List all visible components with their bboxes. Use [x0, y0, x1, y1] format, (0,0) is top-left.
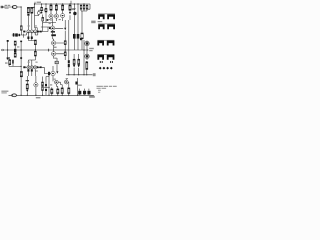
- transistor arrows dp1: [28, 32, 29, 33]
- wire output column: [84, 40, 87, 75]
- capacitor C7 rail block 2: [83, 91, 86, 95]
- wire mid-left stack: [14, 45, 16, 53]
- capacitor C8 rail block 3: [87, 91, 90, 95]
- diode D3 top right arrow: [73, 8, 75, 11]
- label top row: [48, 19, 50, 20]
- node fb bottom tick: [20, 57, 22, 59]
- node dp2 left component: [23, 66, 25, 68]
- transistor Q2 dp1 mid: [30, 30, 33, 33]
- capacitor C1 input electrolytic: [12, 6, 17, 9]
- wire vas column: [35, 4, 57, 32]
- resistor R30 bottom row 4: [68, 88, 70, 94]
- transistor arrows top row: [50, 16, 52, 17]
- title block line 4: [98, 91, 100, 94]
- label right rail: [91, 21, 95, 24]
- fuse F1 marks: [100, 61, 101, 63]
- node top corner block: [47, 19, 49, 21]
- text smudges: [1, 2, 116, 99]
- transistor Q9 top row 2: [54, 14, 58, 18]
- node input terminal mid: [2, 49, 4, 51]
- node vas base blob: [49, 27, 51, 29]
- transistor Q5 vas top: [51, 26, 55, 30]
- resistor R10 vas col component: [45, 8, 47, 12]
- resistor R37 mid-left stack b: [14, 53, 16, 57]
- resistor R22 col c hollow: [81, 33, 83, 39]
- wire feedback column: [9, 41, 49, 95]
- transistor Q4b dp2 right: [34, 66, 37, 69]
- transistor arrows bottom row: [56, 82, 58, 83]
- transistor Q11 lower mid: [51, 71, 55, 75]
- resistor R12 top row 2: [55, 5, 57, 10]
- capacitor C3 lower left: [12, 60, 14, 64]
- title block line 1: [97, 86, 103, 87]
- wire mid column x68: [68, 20, 70, 75]
- wire mid lower transistor chain: [48, 58, 57, 81]
- capacitor bank row 3 left: [97, 41, 104, 46]
- capacitor bank row 4 right: [107, 55, 115, 60]
- transistor Q15 bottom left: [34, 83, 38, 87]
- capacitor bank row 1 left: [98, 14, 104, 19]
- transistor Q1 dp1 left: [27, 30, 30, 33]
- resistor R41 tail lower: [34, 51, 36, 56]
- label top right: [72, 8, 75, 10]
- label lower left: [5, 62, 8, 63]
- node corner block: [80, 38, 82, 40]
- wire dp1 top feed: [28, 4, 37, 31]
- resistor R18 col68 lower: [68, 64, 70, 67]
- label bias mid: [54, 47, 57, 48]
- label dp2: [28, 62, 30, 63]
- resistor R45 pre-vas load: [41, 7, 43, 11]
- resistor R7 dp1 base stopper: [23, 31, 25, 33]
- title block line 3: [98, 89, 101, 92]
- resistor R44 vas emitter b: [51, 34, 56, 36]
- resistor R14 top row 4: [69, 5, 71, 10]
- title block line 2: [97, 88, 101, 89]
- resistor R4 dp1 load right: [31, 7, 33, 13]
- resistor R23 lower right 1: [73, 59, 75, 64]
- resistor R19 right col small 1: [80, 5, 82, 9]
- wire rail block stems: [80, 89, 89, 96]
- node block col b: [77, 34, 80, 39]
- wire mid column x65: [64, 20, 66, 60]
- wire dp2 connections: [26, 60, 48, 76]
- diode D6 mid lower: [56, 71, 58, 73]
- resistor R24 lower right 2: [78, 59, 80, 64]
- node col7 top block: [7, 40, 9, 42]
- resistor R33 bottom mid stack bottom: [42, 87, 44, 91]
- wire dp1 collector right: [31, 13, 33, 30]
- capacitor bank row 2 right: [107, 24, 115, 29]
- resistor R6 dp1 emitter right: [31, 37, 33, 40]
- diode D4 lower right 1: [73, 65, 75, 68]
- wire bottom rail: [9, 95, 94, 97]
- label rail blocks: [78, 85, 82, 86]
- resistor R3 dp1 load left: [27, 7, 29, 13]
- wire dp1 output to VAS: [35, 21, 48, 32]
- resistor R17 col68 upper: [68, 60, 70, 63]
- resistor R13 top row 3: [62, 5, 64, 10]
- wire right lower resistor col: [74, 54, 87, 75]
- resistor R1 bias upper: [20, 25, 22, 26]
- wire bottom transistor connections: [52, 79, 69, 89]
- resistor R40 tail upper: [34, 40, 36, 45]
- node pre-vas blob: [41, 12, 43, 14]
- diode D2 vas diode: [64, 28, 66, 31]
- node blocks col46: [45, 84, 47, 86]
- label vas: [49, 23, 51, 24]
- diode bridge D11: [106, 67, 109, 70]
- resistor R31 bottom left: [26, 84, 28, 89]
- capacitor C2 base network: [13, 33, 15, 36]
- resistor R38 dp2 emitter left: [27, 69, 29, 71]
- transistor Q10 top row 3: [61, 14, 65, 18]
- wire top rail: [34, 1, 90, 9]
- transistor Q4 dp2 mid: [30, 66, 33, 69]
- wire bottom resistor stubs: [52, 78, 78, 95]
- capacitor bank row 2 left: [98, 24, 104, 29]
- transistor Q14 bottom row 2: [64, 80, 68, 84]
- label under rail: [36, 97, 41, 98]
- wire vas collector: [53, 18, 65, 58]
- wire dp1 emitters: [28, 33, 37, 41]
- transistor Q17 output top: [85, 41, 89, 45]
- wire input line: [1, 7, 21, 25]
- wire feedback left col: [8, 40, 10, 60]
- resistor R20 right col small 2: [83, 5, 85, 9]
- label q14 squiggle: [66, 78, 68, 79]
- capacitor bank row 4 left: [97, 55, 104, 60]
- wire right lower rail: [66, 74, 93, 76]
- diode D5 lower right 2: [78, 65, 80, 68]
- diode bridge D10: [103, 67, 106, 70]
- label vas: [44, 9, 45, 11]
- resistor R11 top row 1: [50, 5, 52, 10]
- transistor Q2b dp1 right: [34, 30, 37, 33]
- transistor Q8 top row 1: [49, 14, 53, 18]
- input connector: [1, 6, 3, 8]
- label bottom left: [1, 91, 8, 92]
- resistor R35 lower left: [9, 60, 11, 65]
- resistor R28 bottom row 2: [57, 89, 59, 94]
- resistor R15 mid col upper: [64, 41, 66, 45]
- resistor R27 bottom row 1: [51, 89, 53, 94]
- label top rail: [37, 2, 41, 3]
- resistor R26 trimmer mid: [55, 61, 58, 64]
- transistor Q13 bottom row 1: [55, 80, 59, 84]
- resistor R34 feedback: [20, 72, 22, 77]
- capacitor C6 rail block 1: [78, 91, 81, 95]
- wire mid rail: [3, 49, 88, 51]
- resistor R5 dp1 emitter left: [27, 37, 29, 40]
- capacitor C5 bottom rail electrolytic: [12, 94, 16, 97]
- right power column: [97, 14, 115, 70]
- label dp1: [28, 25, 30, 26]
- wire right col a: [73, 4, 75, 50]
- resistor R16 mid col lower: [64, 52, 66, 56]
- resistor R32 bottom mid stack top: [42, 82, 44, 86]
- resistor R21 right col small 3: [86, 5, 88, 9]
- capacitor C4 mid-left dark: [14, 49, 16, 53]
- node dp1 left collector block: [27, 14, 29, 16]
- resistor R42 dp2 output: [40, 66, 42, 68]
- wire right col b: [77, 4, 79, 50]
- transistor Q19 pre-vas: [37, 12, 40, 15]
- node dp2 right component: [37, 66, 39, 68]
- transistor arrow vas: [52, 28, 54, 29]
- diode D7 bottom right of Q14: [75, 82, 77, 85]
- resistor R25 lower right tall: [86, 62, 88, 70]
- resistor R39 dp2 emitter right: [31, 69, 33, 71]
- wire bottom-left columns: [27, 73, 49, 95]
- node junction dots: [41, 3, 42, 4]
- capacitor bank row 1 right: [107, 14, 115, 19]
- node base junction: [19, 34, 20, 36]
- transistor Q6 bias upper: [51, 41, 55, 45]
- wire bottom base line: [44, 86, 50, 88]
- diode D8 bottom left arrow: [26, 90, 28, 92]
- wire top transistor feeds: [51, 10, 70, 21]
- wire dp2 collector feeds: [28, 45, 35, 60]
- wire dp1 collector left: [27, 16, 29, 30]
- label right col f: [98, 21, 103, 22]
- transistor arrows dp2: [28, 67, 29, 68]
- node fb top tick: [20, 41, 22, 43]
- transistor Q16 top right dark: [73, 12, 76, 15]
- label output: [89, 48, 94, 49]
- label bottom rail: [89, 96, 95, 98]
- label input: [5, 5, 7, 6]
- wire input bias vertical: [21, 31, 23, 38]
- resistor R9 vas top bar: [42, 17, 44, 21]
- diode bridge D9: [99, 67, 102, 70]
- node block col a: [73, 34, 76, 39]
- transistor Q7 bias lower: [51, 52, 55, 56]
- node cluster left of Q11: [48, 72, 50, 75]
- wire base network horizontal: [12, 33, 27, 35]
- diode D1 top col: [69, 12, 71, 14]
- capacitor bank row 3 right: [107, 41, 115, 46]
- label mid stack: [17, 46, 19, 47]
- node T bottom left: [26, 80, 29, 81]
- wire right col c: [81, 9, 90, 50]
- resistor R43 vas emitter a: [51, 31, 55, 33]
- transistor arrows bias: [53, 42, 55, 43]
- resistor R36 mid-left stack a: [14, 41, 16, 45]
- resistor R2 base network: [15, 33, 18, 36]
- node col7 bottom block: [7, 57, 9, 59]
- resistor R8 dp1 output component: [40, 31, 42, 33]
- label minus rail: [93, 73, 96, 76]
- diode bridge D12: [110, 67, 113, 70]
- resistor R29 bottom row 3: [61, 88, 63, 94]
- transistor Q3 dp2 left: [27, 66, 30, 69]
- label bottom circles: [50, 84, 52, 85]
- wire output node: [87, 49, 88, 51]
- fuse F2 marks: [110, 61, 111, 63]
- transistor Q18 output bottom: [85, 54, 89, 58]
